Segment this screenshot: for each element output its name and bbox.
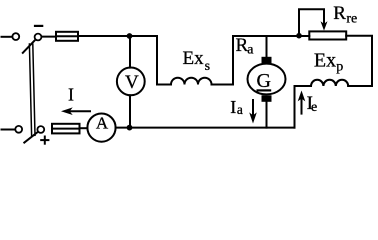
svg-text:I: I	[68, 84, 74, 104]
svg-text:R: R	[333, 3, 346, 24]
svg-text:I: I	[230, 97, 236, 117]
switch S1 bottom blade	[24, 132, 38, 143]
fuse F2 bottom	[52, 124, 80, 134]
svg-text:re: re	[346, 12, 357, 27]
fuse F1 top	[56, 32, 78, 41]
wire generator bottom brush lead	[266, 102, 268, 128]
wire bottom rail	[116, 127, 295, 129]
node top voltmeter junction	[127, 33, 133, 39]
wire switch to top fuse	[42, 36, 57, 38]
minus polarity label	[35, 25, 42, 27]
arrow current I_a head	[249, 112, 257, 123]
wire rheostat wiper tap	[299, 9, 324, 35]
generator G armature circle	[248, 64, 286, 95]
arrow current I line	[68, 110, 90, 112]
wire top rail corner down to series winding	[157, 36, 171, 85]
node bottom voltmeter junction	[127, 125, 133, 131]
resistor R_re rheostat body	[309, 31, 346, 39]
wire top rail fuse to corner	[78, 35, 157, 37]
svg-text:Ex: Ex	[314, 50, 336, 72]
svg-text:a: a	[237, 102, 243, 117]
switch S1 insulating bar (double line)	[29, 44, 31, 135]
switch S1 top blade	[23, 40, 36, 53]
voltmeter V circle	[117, 68, 145, 96]
wire voltmeter top lead	[129, 36, 131, 68]
wire generator top brush lead	[266, 36, 268, 57]
svg-text:p: p	[336, 60, 343, 75]
wire top rail to rheostat	[233, 35, 309, 37]
wire bottom-left supply stub	[2, 129, 16, 131]
svg-text:G: G	[256, 70, 270, 92]
wire Ex_p to right riser	[346, 36, 372, 86]
svg-text:s: s	[205, 59, 210, 74]
wire voltmeter bottom lead	[129, 95, 131, 127]
wire shunt branch riser left	[295, 86, 312, 128]
arrow current I_e line	[301, 97, 303, 114]
arrow current I_e head	[298, 91, 306, 102]
terminal bottom supply circle	[15, 126, 22, 133]
terminal top supply circle	[12, 33, 19, 40]
svg-text:e: e	[311, 100, 317, 115]
switch S1 top pole contact circle	[35, 34, 42, 41]
svg-text:a: a	[247, 43, 254, 58]
label generator G underline	[257, 89, 272, 91]
wire top-left supply stub	[2, 36, 13, 38]
node rheostat tap junction	[296, 33, 302, 39]
plus polarity label	[41, 139, 48, 141]
svg-text:V: V	[125, 72, 139, 93]
generator G bottom brush	[262, 95, 272, 102]
wire bottom fuse to ammeter	[80, 127, 88, 129]
inductor Ex_s series excitation winding	[171, 78, 212, 85]
svg-text:A: A	[96, 113, 109, 132]
ammeter A circle	[87, 114, 115, 142]
svg-text:Ex: Ex	[183, 48, 205, 69]
generator G top brush	[262, 57, 272, 64]
arrow rheostat wiper head	[321, 21, 328, 30]
wire Ex_s to armature riser	[212, 36, 234, 85]
arrow current I_a line	[252, 100, 254, 118]
arrow current I head	[61, 107, 73, 115]
switch S1 bottom pole contact circle	[37, 126, 44, 133]
inductor Ex_p shunt excitation winding	[311, 80, 348, 86]
